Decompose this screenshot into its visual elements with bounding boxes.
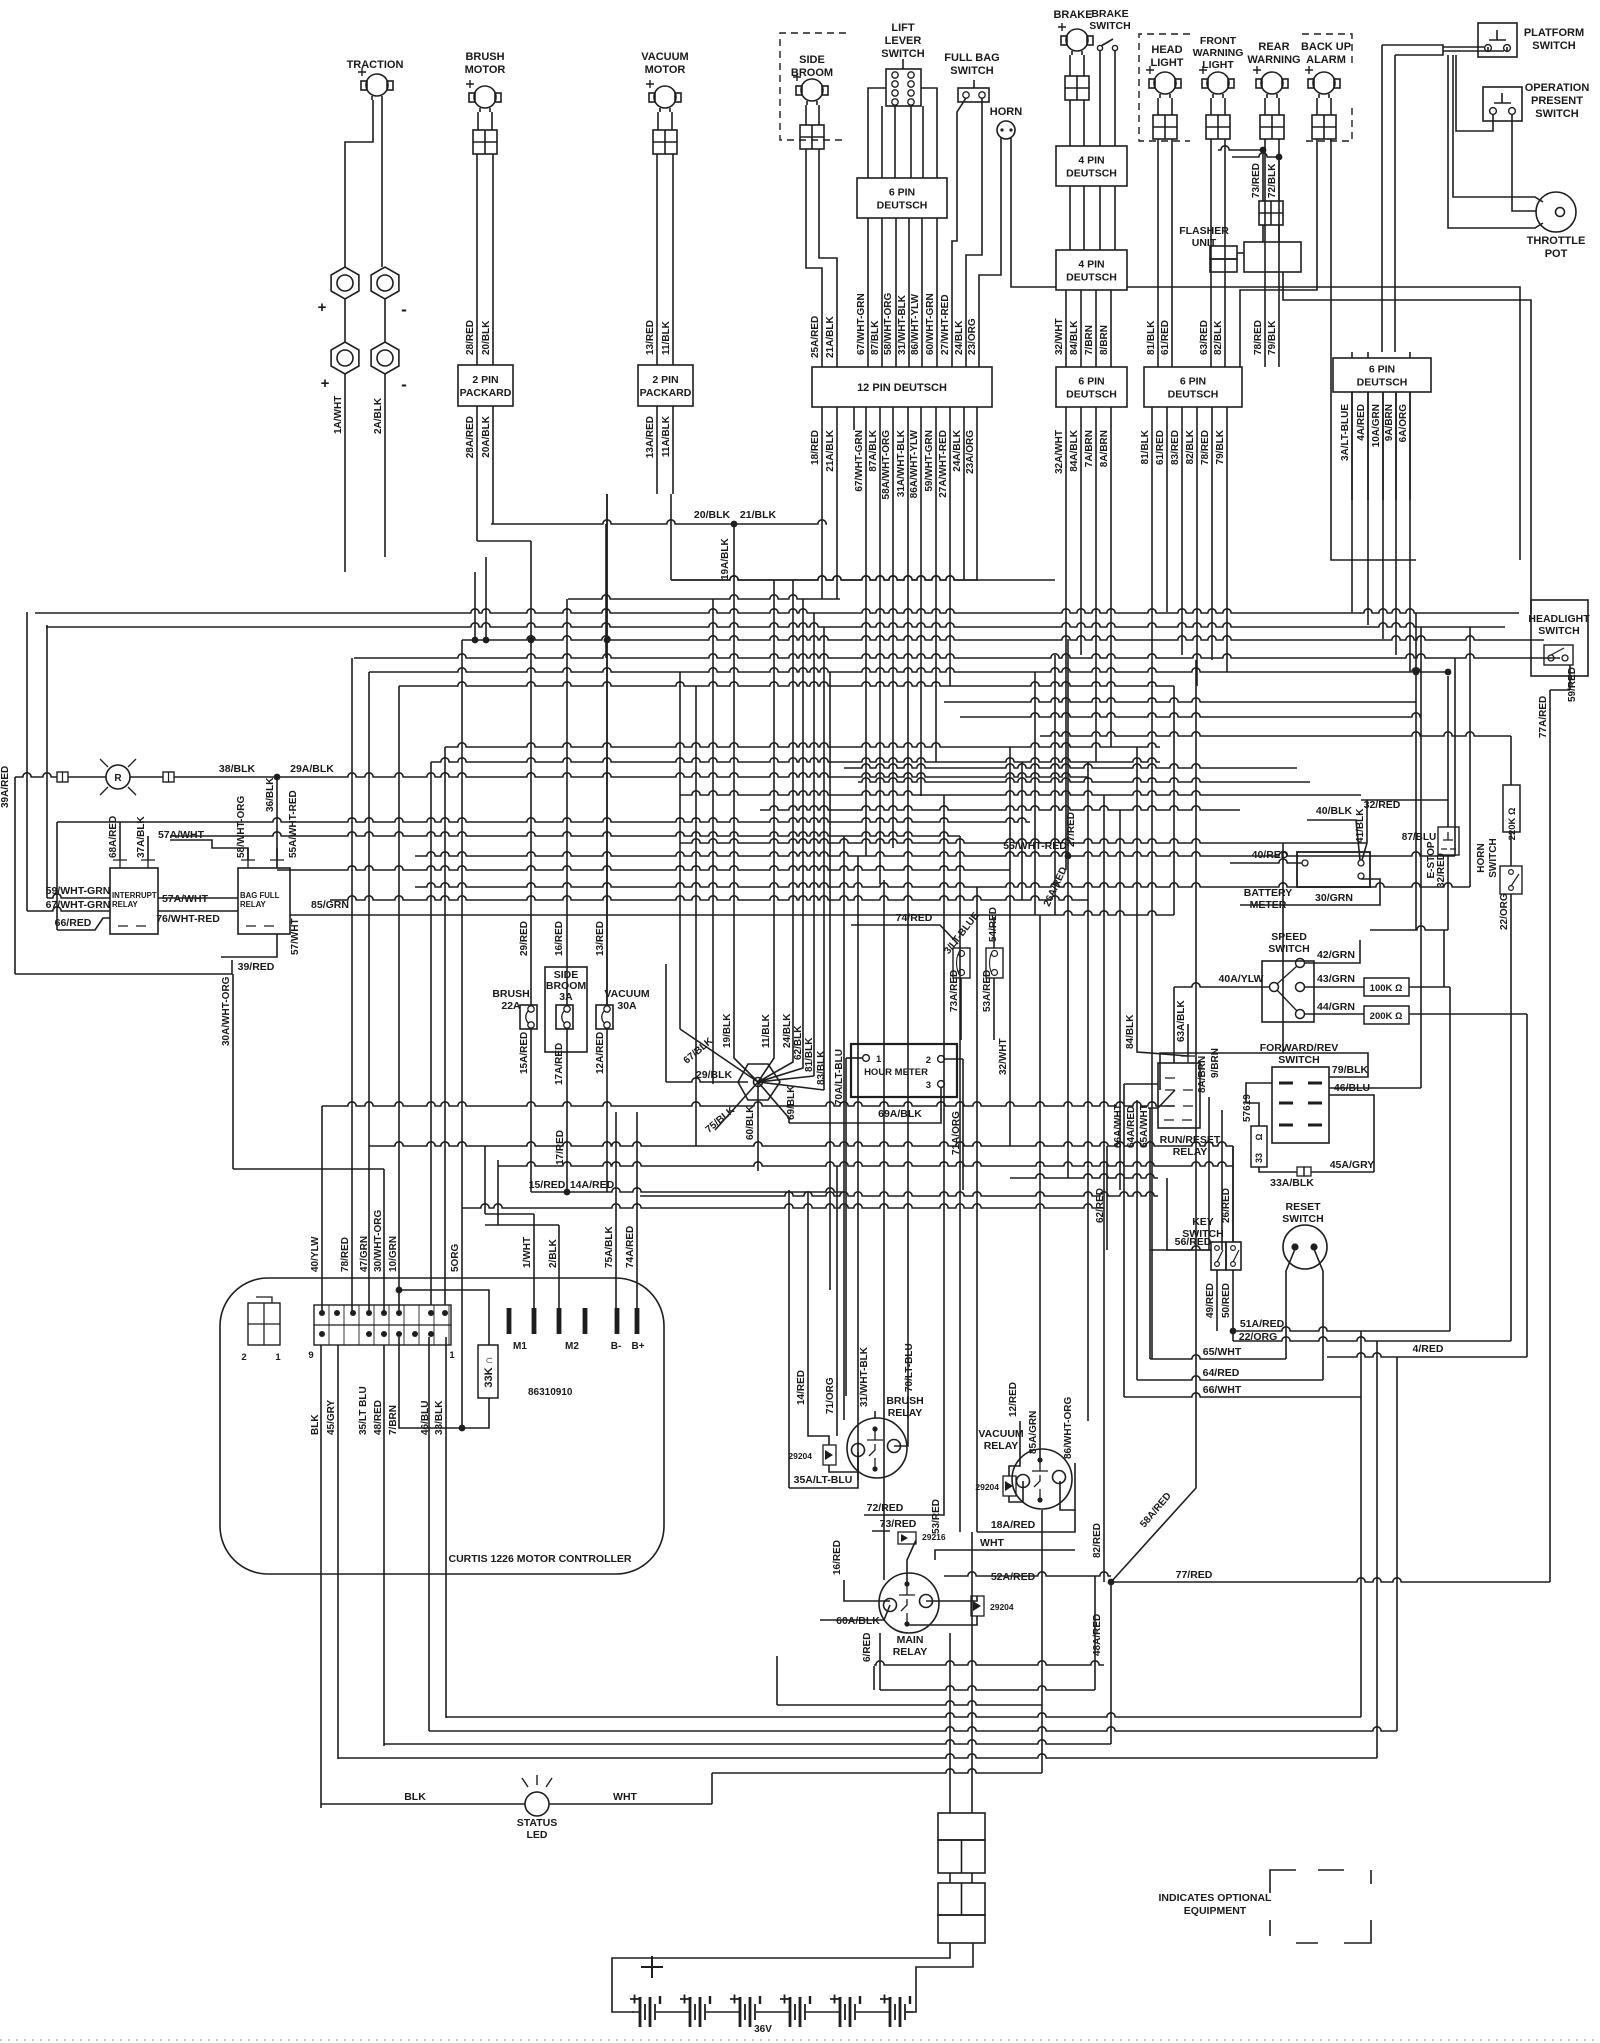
wire wire 19/BLK [734,1048,758,1082]
wire wire r6 10A/GRN [1382,392,1384,500]
wire riser 1095 [1094,1576,1096,1690]
svg-text:MAIN: MAIN [897,1634,924,1646]
svg-text:12 PIN DEUTSCH: 12 PIN DEUTSCH [857,382,947,394]
svg-text:FRONT: FRONT [1200,35,1237,47]
connector 18 pin ctrl [314,1305,451,1345]
svg-text:SWITCH: SWITCH [1538,625,1579,637]
svg-text:84A/BLK: 84A/BLK [1069,429,1080,471]
wire wire 49/RED [1216,1270,1218,1331]
svg-text:UNIT: UNIT [1192,237,1217,249]
wire wire 72/RED [864,1490,944,1515]
wire stack gap wire L [949,1873,951,1883]
wire wire brush diode btm [829,1452,858,1472]
svg-text:6 PIN: 6 PIN [1078,376,1104,388]
connector 6 PIN DEUTSCH (lights) [1144,367,1242,407]
connector 4 pin ctrl [248,1303,280,1345]
svg-text:INDICATES OPTIONAL: INDICATES OPTIONAL [1159,1892,1273,1904]
svg-text:33K ∩: 33K ∩ [483,1356,495,1387]
wire wire 220K-horn [1510,832,1512,866]
svg-text:RELAY: RELAY [112,900,139,909]
svg-text:17A/RED: 17A/RED [554,1043,565,1085]
svg-text:39/RED: 39/RED [238,961,275,973]
wire wire 29/BLK [666,1078,748,1082]
svg-text:RUN/RESET: RUN/RESET [1160,1134,1221,1146]
svg-text:PACKARD: PACKARD [640,387,692,399]
wire col 977 [976,887,978,1532]
wire flasher tap wire 1 [1218,146,1263,150]
wire wire 29 riser [665,964,667,1082]
wire wire 40/RED [1230,859,1302,863]
wire col 1416 [1415,613,1417,930]
svg-text:1A/WHT: 1A/WHT [333,396,344,434]
wire traction + [345,100,373,267]
relay INTERRUPT [110,868,158,934]
svg-text:SWITCH: SWITCH [1278,1054,1319,1066]
wire wire 15A/RED [530,1029,532,1192]
svg-text:21/BLK: 21/BLK [740,509,777,521]
svg-text:20/BLK: 20/BLK [481,320,492,355]
junction node 77 [1108,1579,1115,1586]
motor SIDE BROOM [801,79,823,101]
svg-text:22A: 22A [501,1000,521,1012]
wire stack gap wire R [971,1873,973,1883]
switch KEY b [1226,1242,1241,1270]
wire wire 56/RED [1167,1249,1211,1251]
switch PLATFORM (box) [1478,23,1517,57]
svg-text:45/GRY: 45/GRY [326,1399,337,1435]
wire wire 44/GRN [1305,1013,1364,1015]
wire wire 35A/LT-BLU [789,1455,858,1488]
svg-text:24/BLK: 24/BLK [782,1013,793,1048]
wire wire brake conn L [1069,100,1071,146]
junction node 27/RED [1065,853,1072,860]
svg-text:Ω: Ω [1254,1133,1264,1140]
svg-text:32/WHT: 32/WHT [1054,318,1065,355]
wire wire 62/BLK hex [758,1064,803,1082]
wire drop brake 1081 [1080,407,1082,655]
svg-text:72/BLK: 72/BLK [1267,163,1278,198]
motor VACUUM [654,86,676,108]
svg-text:2/BLK: 2/BLK [548,1238,559,1268]
svg-text:84/BLK: 84/BLK [1069,320,1080,355]
wire riser 1397 [1396,1357,1398,1731]
svg-text:45A/GRY: 45A/GRY [1330,1159,1375,1171]
wire riser pin7 [430,762,432,1305]
svg-text:32/WHT: 32/WHT [998,1038,1009,1075]
wire wire 60/BLK [757,1082,759,1171]
wire wire 65A/WHT [1149,1108,1151,1359]
wire wire 55A to relay [276,848,278,860]
wire wire conn riser L [949,1633,951,1813]
svg-text:FULL BAG: FULL BAG [944,52,999,64]
wire drop right6 1368 [1367,392,1369,625]
svg-text:SWITCH: SWITCH [1089,20,1130,32]
svg-text:DEUTSCH: DEUTSCH [1168,389,1219,401]
wire wire 1/WHT top [485,1213,534,1215]
wire wire 76/WHT-RED [158,910,238,912]
wire bus 1208 [462,1204,1104,1208]
connector back up alarm [1312,115,1336,139]
connector 4 PIN DEUTSCH (1) [1056,146,1127,186]
wire wire 8/BRN [1110,290,1112,367]
wire brake lead L [1069,55,1071,76]
svg-text:36V: 36V [754,2024,772,2035]
wire wire 73A/RED [960,978,962,1040]
svg-text:6 PIN: 6 PIN [1180,376,1206,388]
wire wire to 220K [1510,736,1512,785]
svg-text:BRUSH: BRUSH [886,1395,923,1407]
wire col 884 [883,880,885,1580]
wire wire rr left1 [1124,1083,1158,1085]
connector 33A [1297,1167,1304,1176]
svg-text:67/WHT-GRN: 67/WHT-GRN [854,430,865,492]
18 pin contacts [319,1310,325,1316]
headlight switch inner [1544,645,1573,665]
svg-text:25A/RED: 25A/RED [810,316,821,358]
connector inline 1 [57,772,68,782]
wire drop 11A [670,494,672,580]
wire col 1470 [1469,627,1471,887]
svg-text:86A/WHT-YLW: 86A/WHT-YLW [909,429,920,498]
svg-text:50/RED: 50/RED [1221,1283,1232,1318]
svg-text:57/WHT: 57/WHT [290,918,301,955]
wire wire 41 riser [1366,800,1368,843]
alarm BACK UP [1313,72,1335,94]
wire wire 51-22 link [1232,1331,1234,1341]
svg-text:4A/RED: 4A/RED [1356,404,1367,441]
svg-text:LED: LED [527,1829,548,1841]
wire wire 40A/YLW [1174,983,1270,987]
connector flasher [1259,201,1283,225]
wire wire ctrl 48RED [428,1337,430,1731]
svg-text:20A/BLK: 20A/BLK [481,415,492,457]
junction node 87 [1445,669,1452,676]
svg-text:28/RED: 28/RED [465,320,476,355]
wire fw lead R [1224,98,1226,115]
svg-text:STATUS: STATUS [517,1817,557,1829]
wire wire main relay top [907,1540,916,1584]
wire wire 60A/BLK [820,1605,890,1620]
svg-text:2 PIN: 2 PIN [472,374,498,386]
svg-text:DEUTSCH: DEUTSCH [1357,377,1408,389]
wire bus 736 [1040,732,1511,736]
svg-text:77/RED: 77/RED [1176,1569,1213,1581]
wire col 1233 [1232,1146,1234,1242]
wire 4pin wire x1115 [1114,186,1116,250]
junction flasher tap 2 [1276,154,1283,161]
wire left riser 66 [56,822,58,930]
wire wire 56 riser [1166,1178,1168,1250]
switch HORN [1500,866,1522,894]
wire wire r6 9A/BRN [1395,392,1397,500]
wire rw lead R [1278,98,1280,115]
svg-text:61/RED: 61/RED [1155,430,1166,465]
wire wire 57A/WHT diag [170,840,248,860]
junction node 13A [604,637,611,644]
wire wire 82/BLK [1224,139,1226,367]
wire col 1196 [1195,660,1197,1465]
meter BATTERY box [1297,852,1370,887]
wire bus bottom 1705 [777,1701,1042,1705]
terminal hex + 2 [331,342,359,374]
svg-text:67/BLK: 67/BLK [682,1035,716,1066]
wire wire 63/RED [1210,139,1212,367]
wire wire 200K out [1409,1013,1527,1015]
svg-text:15A/RED: 15A/RED [519,1032,530,1074]
wire bus 762 [431,758,1160,762]
meter HOUR box [851,1044,957,1097]
legend dashed box [1270,1870,1371,1943]
svg-text:32A/WHT: 32A/WHT [1054,430,1065,474]
wire bundle to platform 1 [1443,46,1484,48]
resistor 100K [1364,978,1409,996]
wire lift lever out 2b [922,106,924,178]
svg-text:RELAY: RELAY [1173,1146,1208,1158]
wire wire 81/BLK [1157,139,1159,367]
wire wire 79/BLK [1278,139,1280,367]
svg-text:73/RED: 73/RED [1251,163,1262,198]
svg-text:B-: B- [611,1341,622,1352]
wire wire 13A/RED [656,406,658,494]
wire drop 12pin 950 [949,407,951,686]
horn symbol [997,121,1015,139]
svg-text:33A/BLK: 33A/BLK [1270,1177,1314,1189]
wire wire 58A/RED [1111,1465,1196,1582]
svg-text:HEAD: HEAD [1151,44,1182,56]
wire wire 14A drop2 [843,1191,845,1193]
svg-text:B+: B+ [631,1341,644,1352]
svg-text:23/ORG: 23/ORG [967,318,978,355]
wire wire hl-77 [1550,689,1570,691]
wire wire 10/GRN c [398,686,400,1290]
wire wire 18A/RED [977,1510,1075,1532]
svg-text:PRESENT: PRESENT [1531,95,1583,107]
wire wire 78/RED c [351,658,353,1313]
wire wire brake conn R [1083,100,1085,146]
svg-text:5ORG: 5ORG [450,1243,461,1272]
svg-text:75A/BLK: 75A/BLK [604,1226,615,1268]
wire rw lead L [1264,98,1266,115]
wire col 1055 [1054,655,1056,915]
wire vacuum lead R [671,112,673,130]
wire wire 30A to pin [233,1168,384,1170]
wire wire conn riser R [971,1532,973,1813]
full bag contacts [963,92,969,98]
svg-text:29/RED: 29/RED [519,921,530,956]
wire wire 22/ORG [1510,894,1512,1341]
svg-text:DEUTSCH: DEUTSCH [1066,168,1117,180]
wire wire 40/YLW c [321,1106,323,1313]
svg-text:79/BLK: 79/BLK [1215,429,1226,464]
wire wire 52A/RED [944,1572,1111,1576]
wire wire 31 to relay [874,1411,876,1418]
wire flasher wire 72/BLK [1278,157,1280,201]
wire left riser 59 [46,625,48,898]
wire wire 69A/BLK [789,1088,941,1123]
svg-text:DEUTSCH: DEUTSCH [877,200,928,212]
wire wire 71A riser [962,1059,964,1190]
wire wire 41/BLK [1362,843,1367,860]
svg-text:SWITCH: SWITCH [1532,40,1575,52]
wire wire 4/RED [1327,1353,1527,1357]
wire wire 70 to relay top [907,1396,909,1420]
wire wire 47/GRN c [368,672,370,1313]
wire wire 64/RED [1137,1376,1323,1380]
svg-text:72/RED: 72/RED [867,1502,904,1514]
svg-text:58A/RED: 58A/RED [1138,1491,1174,1530]
svg-text:9A/BRN: 9A/BRN [1384,404,1395,441]
connector 6 PIN DEUTSCH (lift) [857,178,947,218]
svg-text:LEVER: LEVER [885,35,922,47]
wire wire 38/BLK c [130,776,163,778]
connector stack 1a [938,1813,985,1840]
svg-text:8A/BRN: 8A/BRN [1197,1056,1208,1093]
wire drop hex 19 [733,524,735,1048]
terminal B+ [635,1308,640,1334]
wire flasher out [1283,272,1531,614]
wire riser 1361 [1360,1331,1362,1717]
svg-text:42/GRN: 42/GRN [1317,949,1355,961]
wire wire 75/BLK [715,1082,758,1130]
connector 6 PIN DEUTSCH (right) [1333,358,1431,392]
wire wire hm1 [846,1057,862,1059]
svg-text:BRUSH: BRUSH [492,988,529,1000]
switch LIFT LEVER [886,69,921,106]
wire wire 1421 to fwd [1329,1087,1421,1089]
svg-text:200K Ω: 200K Ω [1370,1011,1403,1022]
wire wire 32/WHT m [1009,870,1011,1146]
svg-text:29/BLK: 29/BLK [696,1069,733,1081]
svg-text:1: 1 [876,1054,882,1065]
wire drop hex 81 [813,613,815,1076]
fuse SIDE BROOM 3A [556,1005,573,1029]
svg-text:BLK: BLK [404,1791,426,1803]
wire bus 599 [568,595,840,599]
connector brush motor [473,130,497,154]
switch E-STOP [1438,827,1459,855]
wire brush motor lead R [491,112,493,130]
wire bus 870 [277,866,1010,870]
switch SPEED box [1262,961,1314,1022]
wire wire vac diode btm [1009,1481,1023,1502]
wire wire 85/GRN [290,914,1040,916]
switch BRAKE contacts [1097,45,1102,50]
svg-text:10/GRN: 10/GRN [388,1236,399,1272]
wire wire 54/RED [993,917,995,948]
svg-text:29204: 29204 [788,1451,812,1461]
svg-text:SWITCH: SWITCH [881,48,924,60]
wire platform term R lead [1506,47,1508,52]
wire wire 58/WHT-ORG rl [247,848,249,860]
svg-text:RELAY: RELAY [893,1646,928,1658]
svg-text:6/RED: 6/RED [862,1633,873,1662]
svg-text:33: 33 [1254,1153,1264,1163]
wire bus 930 [1370,926,1448,930]
wire drop lights 1212 [1211,407,1213,660]
switch FORWARD/REV [1272,1067,1329,1143]
svg-text:67/WHT-GRN: 67/WHT-GRN [856,293,867,355]
svg-text:86/WHT-YLW: 86/WHT-YLW [910,293,921,355]
wire wire 71A/ORG [945,1058,963,1060]
wire bundle left inner [1394,55,1396,352]
resistor 33K [478,1345,498,1398]
wire bus 1196 [640,1192,1158,1196]
svg-text:M2: M2 [565,1341,579,1352]
fuse BRUSH 22A [520,1005,537,1029]
speed switch contacts [1270,983,1279,992]
wire 6pin lift wire 1 [881,218,883,367]
wire 4pin wire x1070 [1069,186,1071,250]
terminal M1 a [507,1308,512,1334]
wire bus bottom 1773 [712,1769,1042,1773]
wire wire brake sw L [1099,50,1101,146]
diode 29215 [898,1532,916,1544]
connector 4 PIN DEUTSCH (2) [1056,250,1127,290]
wire bus 843 [680,839,1367,843]
svg-text:7A/BRN: 7A/BRN [1084,430,1095,467]
svg-text:55A/WHT-RED: 55A/WHT-RED [288,790,299,858]
svg-text:67/WHT-GRN: 67/WHT-GRN [46,899,111,911]
wire wire 1wht riser [484,1146,486,1214]
svg-text:17/RED: 17/RED [555,1130,566,1165]
wire wire brush relay coil L [808,1192,829,1445]
wire wire 68A/RED [119,822,121,860]
key contacts [1215,1246,1220,1251]
switch HEADLIGHT box [1531,600,1588,676]
svg-text:8A/BRN: 8A/BRN [1099,430,1110,467]
wire wire 38/BLK a [15,773,57,777]
switch RESET [1283,1225,1327,1269]
svg-text:85A/GRN: 85A/GRN [1028,1411,1039,1454]
wire hex link left [344,299,346,342]
svg-text:27A/WHT-RED: 27A/WHT-RED [938,430,949,498]
svg-text:PACKARD: PACKARD [460,387,512,399]
relay BAG FULL [238,868,290,934]
wire wire 25A/RED [806,149,822,367]
wire drop hex 83 [823,627,825,1090]
wire lift lever stem [902,59,904,69]
wire drop hex 24 [792,580,794,1052]
svg-text:11/BLK: 11/BLK [761,1013,772,1048]
wire 12pin stub [853,407,855,430]
junction node 1416 [1413,669,1420,676]
wire wire 79/BLK f [1160,1053,1368,1090]
svg-text:24A/BLK: 24A/BLK [952,429,963,471]
wire wire 11/BLK [672,154,674,365]
wire wire 65/WHT [1150,1355,1286,1359]
wire wire 74A/RED [636,1112,638,1308]
wire bus 822 [57,818,1030,822]
wire wire ctrl 35LT [383,1345,385,1746]
wire wire 12A/RED [606,1029,608,1192]
motor BRAKE [1066,29,1088,51]
wire wire 40A riser [1173,987,1175,1106]
wire wire WHT [549,1803,712,1805]
svg-text:14A/RED: 14A/RED [570,1179,615,1191]
lamp REAR WARNING [1261,72,1283,94]
svg-text:48/RED: 48/RED [373,1400,384,1435]
lamp FRONT WARNING [1207,72,1229,94]
wire drop 12pin 936 [935,407,937,762]
svg-text:18A/RED: 18A/RED [991,1519,1036,1531]
interrupt relay pins [113,860,155,926]
svg-text:51A/RED: 51A/RED [1240,1318,1285,1330]
svg-text:61/RED: 61/RED [1160,320,1171,355]
wire wire WHT up [711,1773,713,1804]
svg-text:7/BRN: 7/BRN [388,1405,399,1435]
wire wire 7/BRN [1095,290,1097,367]
op present plunger [1494,93,1511,103]
